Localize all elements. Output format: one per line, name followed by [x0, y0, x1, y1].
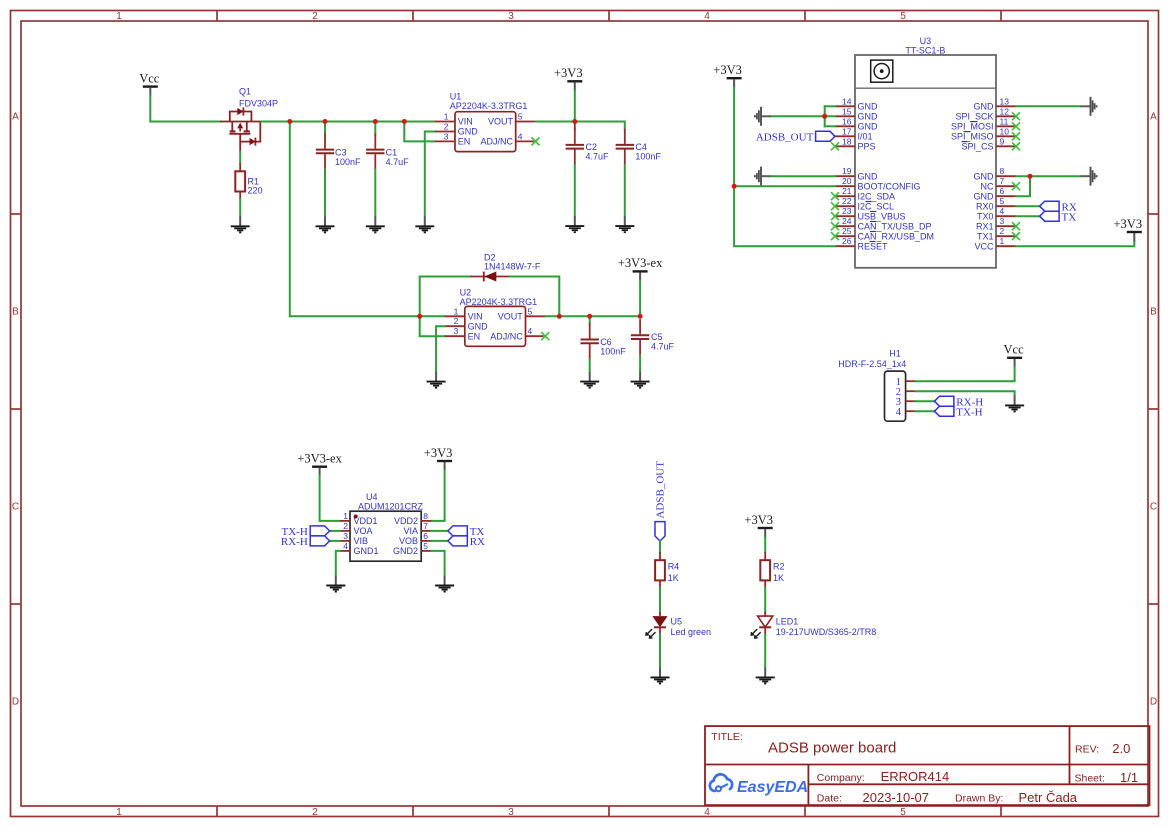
U3 pin 16 GND — [835, 125, 855, 127]
wire +3V3 to R2 — [764, 537, 766, 552]
svg-text:VDD2: VDD2 — [394, 516, 418, 526]
U3 pin 6 GND — [996, 195, 1016, 197]
wire pin14 — [825, 105, 835, 107]
wire rail to U1 EN — [404, 122, 435, 142]
svg-text:6: 6 — [423, 531, 428, 541]
svg-text:EasyEDA: EasyEDA — [737, 779, 808, 796]
no-connect U3 SPI pin — [1012, 132, 1020, 140]
U3 pin 7 NC — [996, 185, 1016, 187]
svg-text:1K: 1K — [773, 573, 784, 583]
wire C6 to ground — [589, 359, 591, 372]
no-connect U3 left pin — [831, 222, 839, 230]
U3 pin 1 VCC — [996, 245, 1016, 247]
U1 pin 3 EN — [435, 140, 455, 142]
svg-text:RESET: RESET — [858, 241, 889, 251]
svg-text:SPI_SCK: SPI_SCK — [955, 112, 993, 122]
svg-text:3: 3 — [343, 531, 348, 541]
svg-text:5: 5 — [518, 112, 523, 122]
U3 pin 3 RX1 — [996, 225, 1016, 227]
power +3V3-ex — [618, 256, 663, 281]
wire D2 to VOUT net — [510, 277, 559, 317]
net flag RX — [1040, 201, 1077, 213]
U3 pin 20 BOOT/CONFIG — [835, 185, 855, 187]
junction — [587, 314, 592, 319]
svg-text:GND: GND — [858, 171, 879, 181]
svg-text:SPI_CS: SPI_CS — [961, 142, 993, 152]
wire R2 to LED1 — [764, 588, 766, 612]
LED LED1 (outline) — [751, 612, 876, 638]
svg-text:I/01: I/01 — [858, 132, 873, 142]
wire +3V3-ex to rail — [639, 281, 641, 317]
ground (LED1) — [756, 668, 775, 684]
U3 pin 2 TX1 — [996, 235, 1016, 237]
svg-text:Vcc: Vcc — [1004, 343, 1025, 357]
svg-text:NC: NC — [981, 181, 994, 191]
transistor Q1 — [220, 107, 261, 151]
svg-text:PPS: PPS — [858, 142, 876, 152]
isolator U4 ADUM1201CRZ — [350, 492, 424, 561]
op-amp U1 AP2204K regulator — [450, 91, 528, 151]
svg-text:+3V3: +3V3 — [744, 513, 773, 527]
U3 pin 24 CAN_TX/USB_DP — [835, 225, 855, 227]
connector H1 HDR-F-2.54_1x4 — [838, 348, 906, 421]
net flag TX — [1040, 211, 1077, 223]
svg-text:100nF: 100nF — [635, 151, 661, 161]
wire H1 pin3 — [916, 400, 935, 402]
ground (U3 pin13) — [1081, 97, 1097, 116]
svg-text:TX1: TX1 — [977, 231, 994, 241]
capacitor C5 — [631, 319, 649, 355]
svg-text:C: C — [1150, 502, 1157, 513]
U4 pin 3 VIB — [340, 540, 350, 542]
wire U5 to ground — [659, 635, 661, 668]
wire +3V3 to BOOT/CONFIG — [734, 185, 835, 187]
svg-text:3: 3 — [508, 807, 514, 818]
no-connect U1 pin4 — [532, 137, 540, 145]
svg-text:+3V3: +3V3 — [1114, 217, 1143, 231]
wire +3V3 to rail — [574, 90, 576, 121]
svg-text:A: A — [1150, 112, 1157, 123]
svg-text:ADSB power board: ADSB power board — [768, 739, 896, 756]
wire LED1 to ground — [764, 635, 766, 668]
ground (U5) — [651, 668, 670, 684]
wire U1 GND to ground — [425, 132, 435, 217]
wire +3V3-ex to U4 VDD1 — [320, 476, 340, 521]
svg-text:7: 7 — [423, 521, 428, 531]
svg-text:C: C — [12, 502, 19, 513]
wire VCC to +3V3 — [1016, 241, 1134, 246]
svg-text:1: 1 — [116, 11, 122, 22]
junction — [557, 314, 562, 319]
svg-text:1N4148W-7-F: 1N4148W-7-F — [484, 261, 541, 271]
svg-text:GND: GND — [974, 171, 995, 181]
wire pin8 to gnd arrow — [1016, 175, 1081, 177]
svg-text:100nF: 100nF — [335, 157, 361, 167]
svg-text:23: 23 — [842, 206, 852, 216]
svg-text:22: 22 — [842, 196, 852, 206]
svg-text:GND: GND — [468, 321, 489, 331]
svg-text:VIN: VIN — [458, 117, 473, 127]
diode D2 1N4148W-7-F — [470, 252, 541, 281]
net flag ADSB_OUT (LED column) — [655, 461, 667, 541]
no-connect TX1 — [1012, 232, 1020, 240]
svg-text:11: 11 — [1000, 116, 1009, 126]
U3 pin 17 I/01 — [835, 135, 855, 137]
wire +3V3 to RESET — [734, 87, 835, 246]
junction — [572, 119, 577, 124]
svg-text:RX1: RX1 — [976, 221, 994, 231]
wire pin6 gnd tie — [1016, 176, 1030, 196]
title block — [705, 726, 1150, 805]
svg-text:10: 10 — [1000, 126, 1010, 136]
ground (C4) — [615, 216, 634, 232]
wire rail down to U2 VIN — [290, 122, 420, 317]
svg-text:Date:: Date: — [817, 793, 842, 805]
svg-text:+3V3: +3V3 — [713, 63, 742, 77]
no-connect U3 NC pin — [1012, 182, 1020, 190]
svg-text:4: 4 — [1000, 206, 1005, 216]
svg-text:4.7uF: 4.7uF — [651, 341, 675, 351]
svg-text:VDD1: VDD1 — [354, 516, 378, 526]
svg-text:1/1: 1/1 — [1120, 770, 1138, 785]
svg-text:+3V3-ex: +3V3-ex — [297, 452, 342, 466]
svg-text:Q1: Q1 — [239, 87, 251, 97]
svg-text:LED1: LED1 — [776, 616, 799, 626]
svg-text:TX-H: TX-H — [956, 406, 982, 418]
U2 pin 5 VOUT — [526, 315, 546, 317]
H1 pin 4 — [906, 410, 916, 412]
wire GND2 to ground — [431, 551, 444, 576]
svg-text:20: 20 — [842, 176, 852, 186]
svg-text:ADJ/NC: ADJ/NC — [490, 331, 523, 341]
net flag ADSB_OUT (U3 pin17) — [756, 131, 835, 143]
svg-text:15: 15 — [842, 106, 852, 116]
svg-text:U3: U3 — [920, 36, 932, 46]
svg-text:16: 16 — [842, 116, 852, 126]
wire flag to R4 — [659, 541, 661, 552]
svg-text:3: 3 — [454, 326, 459, 336]
svg-text:1: 1 — [454, 306, 459, 316]
junction — [822, 114, 827, 119]
svg-text:4: 4 — [343, 541, 348, 551]
U2 pin 4 ADJ/NC — [526, 335, 544, 337]
svg-text:TX0: TX0 — [977, 211, 994, 221]
wire Vcc to Q1 source — [150, 96, 220, 122]
module U3 TT-SC1-B — [855, 36, 996, 268]
power +3V3 — [554, 66, 583, 91]
wire rail to C1 — [374, 122, 376, 135]
U3 pin 11 SPI_MOSI — [996, 125, 1016, 127]
svg-text:SPI_MISO: SPI_MISO — [951, 132, 994, 142]
U3 pin 8 GND — [996, 175, 1016, 177]
power +3V3 — [424, 446, 453, 471]
wire pin19 to gnd arrow — [771, 175, 835, 177]
svg-text:14: 14 — [842, 96, 852, 106]
wire pin16 — [825, 125, 835, 127]
wire R4 to U5 — [659, 588, 661, 612]
U4 pin 1 VDD1 — [340, 520, 350, 522]
svg-text:AP2204K-3.3TRG1: AP2204K-3.3TRG1 — [450, 101, 528, 111]
svg-text:9: 9 — [1000, 136, 1005, 146]
ground (C3) — [316, 217, 335, 233]
svg-text:5: 5 — [1000, 196, 1005, 206]
svg-text:ADSB_OUT: ADSB_OUT — [756, 131, 814, 143]
pin name overbars — [971, 121, 978, 123]
wire C4 to ground — [624, 165, 626, 217]
U1 pin 2 GND — [435, 131, 455, 133]
svg-text:GND: GND — [858, 112, 879, 122]
wire gnd bus vertical — [824, 106, 826, 126]
wire pin13 to gnd arrow — [1016, 105, 1081, 107]
svg-text:8: 8 — [423, 511, 428, 521]
svg-text:VOUT: VOUT — [488, 117, 514, 127]
svg-text:GND2: GND2 — [393, 546, 418, 556]
wire C2 to ground — [574, 165, 576, 217]
U3 pin 23 USB_VBUS — [835, 215, 855, 217]
svg-text:4: 4 — [528, 326, 533, 336]
U3 pin 25 CAN_RX/USB_DM — [835, 235, 855, 237]
svg-text:2: 2 — [312, 11, 318, 22]
wire TX-H to VOA — [330, 530, 340, 532]
wire to U2 pin1 — [420, 315, 445, 317]
svg-text:U5: U5 — [671, 616, 683, 626]
svg-text:1: 1 — [444, 112, 449, 122]
wire C3 to ground — [324, 170, 326, 217]
svg-text:2: 2 — [444, 122, 449, 132]
svg-text:FDV304P: FDV304P — [239, 98, 278, 108]
wire rail to C3 — [324, 122, 326, 135]
svg-text:1: 1 — [116, 807, 122, 818]
junction — [402, 119, 407, 124]
svg-text:RX-H: RX-H — [281, 536, 308, 548]
capacitor C4 — [616, 129, 634, 165]
wire RX-H to VIB — [330, 540, 340, 542]
U2 pin 1 VIN — [445, 315, 465, 317]
svg-text:19: 19 — [842, 166, 852, 176]
junction — [417, 314, 422, 319]
svg-text:18: 18 — [842, 136, 852, 146]
svg-text:1: 1 — [1000, 236, 1005, 246]
svg-text:Sheet:: Sheet: — [1075, 773, 1105, 785]
svg-text:ADUM1201CRZ: ADUM1201CRZ — [358, 502, 424, 512]
svg-text:ERROR414: ERROR414 — [881, 769, 950, 784]
svg-text:7: 7 — [1000, 176, 1005, 186]
wire C1 to ground — [374, 170, 376, 217]
wire RX0 — [1016, 205, 1040, 207]
U3 pin 15 GND — [835, 115, 855, 117]
svg-text:REV:: REV: — [1075, 744, 1099, 756]
wire Q1 to R1 — [239, 152, 241, 164]
ground (U2) — [427, 372, 446, 388]
wire main 3V3-in rail — [261, 121, 435, 123]
svg-text:Petr Čada: Petr Čada — [1019, 790, 1078, 805]
svg-text:2: 2 — [312, 807, 318, 818]
svg-text:4.7uF: 4.7uF — [586, 151, 610, 161]
svg-text:I2C_SDA: I2C_SDA — [858, 191, 896, 201]
wire pin15 to gnd arrow — [771, 115, 835, 117]
svg-text:2: 2 — [343, 521, 348, 531]
svg-text:GND1: GND1 — [354, 546, 379, 556]
junction — [323, 119, 328, 124]
svg-text:VIB: VIB — [354, 536, 369, 546]
ground (H1 pin2) — [1005, 396, 1024, 412]
svg-text:220: 220 — [248, 186, 263, 196]
ground (C1) — [366, 217, 385, 233]
U1 pin 1 VIN — [435, 121, 455, 123]
ground (U4 GND2) — [435, 576, 454, 592]
svg-text:24: 24 — [842, 216, 852, 226]
svg-text:8: 8 — [1000, 166, 1005, 176]
wire U2 GND to ground — [436, 326, 445, 372]
svg-text:D: D — [12, 697, 19, 708]
wire H1 pin2 to ground — [916, 391, 1015, 395]
svg-text:A: A — [12, 112, 19, 123]
svg-text:4: 4 — [704, 807, 710, 818]
capacitor C1 — [366, 133, 384, 169]
U3 antenna icon — [871, 60, 893, 82]
U4 pin 4 GND1 — [340, 550, 350, 552]
U2 pin 2 GND — [445, 325, 465, 327]
svg-text:VCC: VCC — [974, 241, 994, 251]
svg-text:CAN_RX/USB_DM: CAN_RX/USB_DM — [858, 231, 935, 241]
svg-text:4.7uF: 4.7uF — [386, 157, 410, 167]
svg-text:R4: R4 — [668, 562, 680, 572]
svg-text:Led green: Led green — [671, 627, 712, 637]
U4 pin 6 VOB — [421, 540, 431, 542]
U1 pin 5 VOUT — [516, 121, 536, 123]
svg-text:6: 6 — [1000, 186, 1005, 196]
svg-text:2.0: 2.0 — [1112, 741, 1130, 756]
svg-text:TX: TX — [1062, 211, 1077, 223]
U3 pin 26 RESET — [835, 245, 855, 247]
U3 pin 4 TX0 — [996, 215, 1016, 217]
ground (U4 GND1) — [326, 576, 345, 592]
svg-text:U2: U2 — [460, 287, 472, 297]
U3 pin 21 I2C_SDA — [835, 195, 855, 197]
ground (C2) — [565, 216, 584, 232]
resistor R4 — [655, 552, 665, 588]
svg-text:EN: EN — [458, 137, 471, 147]
no-connect U3 SPI pin — [1012, 122, 1020, 130]
wire H1 pin4 — [916, 410, 935, 412]
svg-text:2: 2 — [454, 316, 459, 326]
svg-text:Drawn By:: Drawn By: — [955, 793, 1003, 805]
svg-text:5: 5 — [900, 807, 906, 818]
no-connect U3 left pin — [831, 232, 839, 240]
no-connect U3 left pin — [831, 212, 839, 220]
svg-text:CAN_TX/USB_DP: CAN_TX/USB_DP — [858, 221, 932, 231]
junction — [1028, 174, 1033, 179]
U3 pin 12 SPI_SCK — [996, 115, 1016, 117]
op-amp U2 AP2204K regulator — [460, 287, 538, 346]
power +3V3 — [744, 513, 773, 538]
svg-text:BOOT/CONFIG: BOOT/CONFIG — [858, 181, 921, 191]
wire D2 anode / EN tie — [420, 277, 445, 337]
junction — [287, 119, 292, 124]
svg-text:EN: EN — [468, 331, 481, 341]
svg-text:H1: H1 — [889, 348, 901, 358]
svg-text:1: 1 — [343, 511, 348, 521]
svg-text:5: 5 — [900, 11, 906, 22]
U2 pin 3 EN — [445, 335, 465, 337]
U3 pin 13 GND — [996, 105, 1016, 107]
ground (U1) — [415, 217, 434, 233]
svg-text:TT-SC1-B: TT-SC1-B — [905, 46, 945, 56]
svg-text:B: B — [1150, 307, 1157, 318]
svg-text:D: D — [1150, 697, 1157, 708]
svg-text:VIN: VIN — [468, 312, 483, 322]
svg-text:Vcc: Vcc — [139, 71, 160, 85]
wire TX0 — [1016, 215, 1040, 217]
U3 pin 19 GND — [835, 175, 855, 177]
svg-text:TITLE:: TITLE: — [711, 731, 743, 743]
svg-text:4: 4 — [704, 11, 710, 22]
svg-text:3: 3 — [444, 131, 449, 141]
no-connect U3 left pin — [831, 192, 839, 200]
H1 pin 3 — [906, 400, 916, 402]
svg-text:25: 25 — [842, 226, 852, 236]
U4 pin 8 VDD2 — [421, 520, 431, 522]
svg-text:AP2204K-3.3TRG1: AP2204K-3.3TRG1 — [460, 297, 538, 307]
power +3V3 — [1114, 217, 1143, 242]
ground (U3 pins 14-16) — [755, 107, 771, 126]
svg-text:3: 3 — [508, 11, 514, 22]
svg-text:USB_VBUS: USB_VBUS — [858, 211, 906, 221]
svg-text:SPI_MOSI: SPI_MOSI — [951, 122, 994, 132]
wire H1 pin1 to Vcc — [916, 367, 1015, 381]
svg-text:1K: 1K — [668, 573, 679, 583]
wire VIA to TX — [431, 530, 448, 532]
U4 pin 7 VIA — [421, 530, 431, 532]
U3 pin 18 PPS — [835, 145, 855, 147]
wire rail to C6 — [589, 316, 591, 324]
U3 pin 22 I2C_SCL — [835, 205, 855, 207]
ground (R1) — [231, 217, 250, 233]
resistor R1 — [235, 163, 245, 199]
svg-text:VOB: VOB — [399, 536, 418, 546]
svg-text:19-217UWD/S365-2/TR8: 19-217UWD/S365-2/TR8 — [776, 627, 877, 637]
svg-text:21: 21 — [842, 186, 852, 196]
svg-text:GND: GND — [458, 127, 479, 137]
svg-text:2023-10-07: 2023-10-07 — [863, 790, 930, 805]
svg-text:12: 12 — [1000, 106, 1010, 116]
ground (U3 pin 19) — [755, 167, 771, 186]
svg-text:HDR-F-2.54_1x4: HDR-F-2.54_1x4 — [838, 359, 906, 369]
no-connect U3 PPS — [831, 142, 839, 150]
U4 pin 2 VOA — [340, 530, 350, 532]
U4 pin 5 GND2 — [421, 550, 431, 552]
svg-text:RX0: RX0 — [976, 201, 994, 211]
power +3V3 — [713, 63, 742, 88]
svg-text:ADSB_OUT: ADSB_OUT — [655, 461, 667, 519]
wire to D2 cathode — [420, 276, 471, 278]
U3 pin 9 SPI_CS — [996, 145, 1016, 147]
capacitor C3 — [316, 133, 334, 169]
no-connect U3 SPI pin — [1012, 112, 1020, 120]
svg-text:+3V3: +3V3 — [424, 446, 453, 460]
EasyEDA logo — [710, 774, 808, 795]
resistor R2 — [760, 552, 770, 588]
U1 pin 4 ADJ/NC — [516, 140, 534, 142]
svg-text:B: B — [12, 307, 19, 318]
wire +3V3 to U4 VDD2 — [431, 470, 444, 521]
svg-text:GND: GND — [858, 122, 879, 132]
no-connect U3 SPI pin — [1012, 142, 1020, 150]
svg-text:U1: U1 — [450, 91, 462, 101]
svg-text:I2C_SCL: I2C_SCL — [858, 201, 895, 211]
ground (C5) — [631, 372, 650, 388]
ground (U3 pin8) — [1081, 167, 1097, 186]
